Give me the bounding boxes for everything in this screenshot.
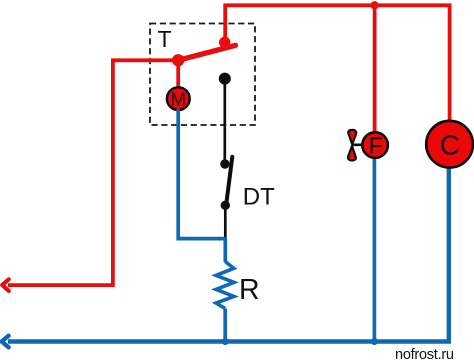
svg-text:T: T: [158, 26, 172, 52]
contact: right (open) terminal dot in T box: [219, 73, 231, 85]
wire: blue from junction down to resistor R: [223, 239, 227, 262]
timer switch DT: arm: [226, 157, 232, 205]
node: left contact dot: [172, 54, 184, 66]
node: junction dot on top feed: [370, 1, 378, 9]
svg-text:C: C: [440, 129, 460, 160]
compressor C circle: [426, 121, 473, 168]
timer switch DT: upper terminal dot: [220, 159, 229, 168]
arrowhead blue (left): [2, 336, 9, 348]
node: switch pivot dot: [219, 37, 230, 48]
fan blade icon: upper blade: [348, 130, 356, 144]
fan motor F circle: [362, 132, 388, 158]
fan blade icon: lower blade: [348, 146, 356, 160]
wire: red drop to fan F: [373, 5, 377, 133]
wire: red left branch with arrow: [8, 60, 178, 285]
fan blade icon: hub stub: [352, 144, 362, 147]
node: blue junction under fan: [371, 338, 378, 345]
node: blue junction under resistor: [222, 338, 229, 345]
arrowhead red (left): [2, 279, 9, 291]
svg-text:F: F: [369, 132, 383, 158]
timer switch DT: lower terminal dot: [221, 201, 230, 210]
wire: blue bottom bus with arrow, up to compressor C: [8, 168, 449, 342]
wire: red stub from node down to motor M: [176, 60, 180, 88]
wire: blue from resistor to bottom bus: [223, 309, 227, 342]
wire: blue drop from fan F to bottom bus: [373, 157, 377, 342]
motor M circle: [167, 87, 190, 110]
svg-text:R: R: [239, 274, 260, 306]
wire: top red feed from switch to compressor branch: [225, 5, 449, 121]
svg-text:M: M: [171, 88, 186, 109]
wire: blue from motor M down and right to DT junction: [178, 109, 225, 239]
wire: black from open contact down to timer DT: [223, 79, 226, 164]
svg-text:DT: DT: [243, 184, 275, 211]
wire: black from DT lower terminal down to blue junction: [224, 205, 227, 238]
thermostat box T (dashed): [150, 24, 255, 126]
svg-text:nofrost.ru: nofrost.ru: [395, 347, 454, 363]
resistor R zigzag: [216, 262, 234, 309]
switch arm in T (closed to left contact): [178, 45, 235, 60]
